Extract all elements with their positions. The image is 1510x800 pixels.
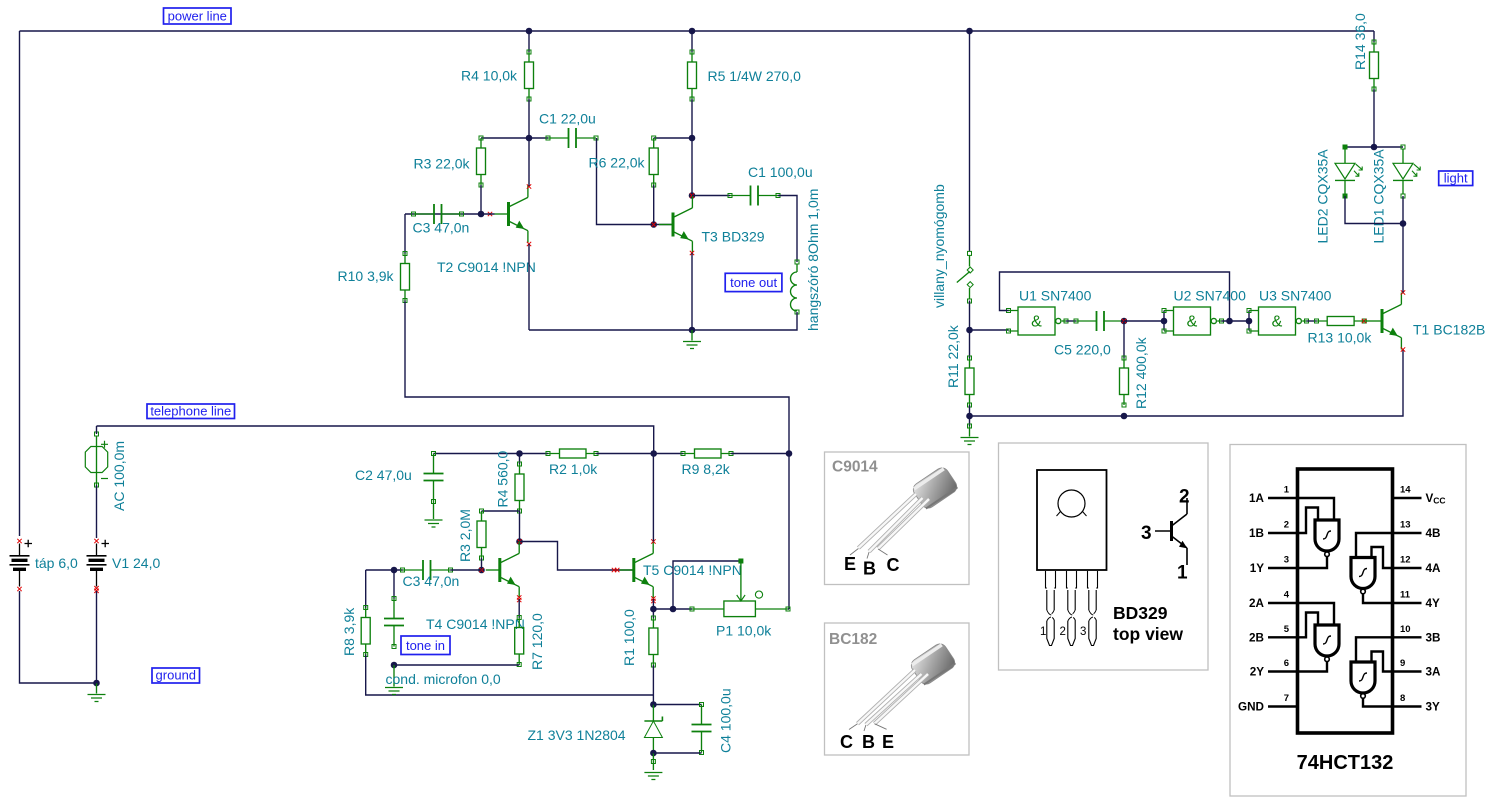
svg-text:telephone line: telephone line <box>150 404 231 419</box>
wire LED1 cathode <box>1402 196 1404 224</box>
wire telephone line <box>97 426 654 454</box>
wire <box>519 454 521 465</box>
svg-text:BD329: BD329 <box>1113 603 1168 623</box>
transistor T5 C9014 <box>620 542 653 599</box>
wire battery to ground <box>20 591 97 683</box>
wire U3 input tie <box>1248 311 1250 331</box>
node mic/C3b <box>391 567 398 574</box>
capacitor C4 100,0u <box>692 703 712 755</box>
node R6/T3 base <box>650 221 657 228</box>
ground mic <box>385 665 403 695</box>
NAND gate 1 internals <box>1297 498 1334 533</box>
svg-text:74HCT132: 74HCT132 <box>1297 752 1394 774</box>
svg-text:R7 120,0: R7 120,0 <box>529 613 545 670</box>
svg-text:R13 10,0k: R13 10,0k <box>1308 329 1373 345</box>
wire <box>1123 321 1125 358</box>
transistor T1 BC182B <box>1368 293 1401 350</box>
ground main <box>88 683 106 702</box>
svg-text:R3 2,0M: R3 2,0M <box>457 509 473 562</box>
resistor R14 <box>1370 40 1379 91</box>
info box BC182 pinout <box>825 623 970 755</box>
svg-text:U3 SN7400: U3 SN7400 <box>1259 288 1332 304</box>
resistor R5 <box>688 50 697 101</box>
wire P1 wiper loop <box>673 561 741 609</box>
wire <box>528 31 530 52</box>
inductor speaker hangszoro <box>791 260 800 314</box>
resistor R6 <box>649 136 658 187</box>
wire C3 to T2 base <box>405 213 495 215</box>
NAND gate U2 <box>1162 307 1224 335</box>
wire <box>1222 320 1250 322</box>
node switch/U1 <box>966 327 973 334</box>
label power line <box>164 8 232 24</box>
info box BD329 top view <box>999 443 1209 670</box>
svg-text:C1 22,0u: C1 22,0u <box>539 111 596 127</box>
wire emitter to P1 <box>653 608 692 610</box>
wire <box>1124 320 1164 322</box>
svg-text:8: 8 <box>1400 693 1405 704</box>
wire <box>654 137 692 139</box>
node R4b top <box>516 450 523 457</box>
wire <box>653 185 655 225</box>
svg-text:R6 22,0k: R6 22,0k <box>589 155 646 171</box>
svg-text:B: B <box>863 559 876 579</box>
wire C1 to T3 base <box>597 138 654 225</box>
wire mic rail <box>394 664 519 666</box>
svg-text:R3 22,0k: R3 22,0k <box>414 156 471 172</box>
svg-text:táp 6,0: táp 6,0 <box>35 555 78 571</box>
node R4/C1/R3 <box>526 135 533 142</box>
wire switch drop <box>969 31 971 251</box>
svg-text:4B: 4B <box>1426 527 1441 540</box>
wire LED2 cathode <box>1345 196 1403 224</box>
info box C9014 pinout <box>825 452 970 585</box>
svg-text:C4 100,0u: C4 100,0u <box>718 688 734 753</box>
svg-text:LED1 CQX35A: LED1 CQX35A <box>1371 149 1387 244</box>
svg-text:4Y: 4Y <box>1426 597 1441 610</box>
ground osc <box>961 426 979 445</box>
resistor R3 2,0M <box>477 509 486 560</box>
svg-text:3: 3 <box>1284 555 1289 566</box>
svg-text:1: 1 <box>1284 485 1290 496</box>
wire R3b top <box>482 510 520 512</box>
wire U2 input tie <box>1163 311 1165 331</box>
svg-text:2A: 2A <box>1249 597 1265 610</box>
svg-text:top view: top view <box>1113 624 1183 644</box>
potentiometer P1 <box>690 559 790 617</box>
pin marker T4 collector <box>517 539 521 543</box>
svg-text:2: 2 <box>1284 520 1289 531</box>
switch villany_nyomogomb <box>957 251 973 303</box>
svg-text:&: & <box>1272 314 1283 331</box>
wire <box>481 137 548 139</box>
svg-text:hangszóró 8Ohm 1,0m: hangszóró 8Ohm 1,0m <box>805 189 821 331</box>
svg-text:T2 C9014 !NPN: T2 C9014 !NPN <box>437 259 536 275</box>
node U3 inputs <box>1246 318 1253 325</box>
wire <box>691 138 693 196</box>
wire <box>692 195 730 197</box>
svg-text:R4 560,0: R4 560,0 <box>495 450 511 507</box>
svg-text:villany_nyomógomb: villany_nyomógomb <box>931 184 947 308</box>
svg-text:Z1 3V3 1N2804: Z1 3V3 1N2804 <box>528 727 626 743</box>
wire <box>365 570 367 608</box>
pin marker T3 emitter <box>690 251 694 255</box>
wire <box>691 99 693 138</box>
LED LED2 <box>1335 145 1362 198</box>
svg-text:R10 3,9k: R10 3,9k <box>338 268 395 284</box>
node R9/coupling <box>786 450 793 457</box>
wire <box>691 31 693 52</box>
pin markers V1 bottom <box>94 586 98 590</box>
svg-text:10: 10 <box>1400 624 1411 635</box>
node R5/R6 <box>689 135 696 142</box>
svg-text:13: 13 <box>1400 520 1411 531</box>
wire <box>652 665 654 705</box>
AC source <box>85 426 108 487</box>
svg-text:R4 10,0k: R4 10,0k <box>461 68 518 84</box>
node P1 wiper tie <box>670 606 677 613</box>
pin markers T2 <box>488 212 492 216</box>
wire <box>393 570 395 599</box>
wire R6 node to T3 base <box>654 224 672 226</box>
svg-text:4A: 4A <box>1426 562 1442 575</box>
svg-text:9: 9 <box>1400 658 1405 669</box>
svg-text:3: 3 <box>1141 523 1152 544</box>
svg-text:AC 100,0m: AC 100,0m <box>111 441 127 511</box>
svg-text:C: C <box>840 732 853 752</box>
node U2 out/feedback <box>1226 318 1233 325</box>
svg-text:11: 11 <box>1400 590 1411 601</box>
node T4 base <box>478 567 485 574</box>
label telephone line <box>147 404 235 419</box>
pin markers T4 emitter <box>517 595 521 599</box>
wire U3 out to R13 <box>1307 320 1317 322</box>
transistor T4 C9014 <box>486 542 519 599</box>
svg-text:T1 BC182B: T1 BC182B <box>1413 322 1485 338</box>
svg-text:4: 4 <box>1284 590 1290 601</box>
wire T5 emitter <box>652 599 654 609</box>
svg-text:1A: 1A <box>1249 492 1265 505</box>
pin marker T3 base <box>652 222 656 226</box>
wire rail C2-R2 <box>434 453 549 455</box>
wire R13 to T1 base <box>1364 320 1368 322</box>
svg-text:power line: power line <box>168 9 227 24</box>
wire T4 collector to T5 base <box>520 542 634 571</box>
svg-text:6: 6 <box>1284 658 1289 669</box>
node power/R5 <box>689 28 696 35</box>
NAND gate 4 internals <box>1356 637 1393 671</box>
svg-text:R12 400,0k: R12 400,0k <box>1133 336 1149 409</box>
svg-text:light: light <box>1444 171 1468 186</box>
svg-text:R8 3,9k: R8 3,9k <box>341 607 357 656</box>
node C5/R12 <box>1121 318 1128 325</box>
node LED cathode <box>1400 220 1407 227</box>
wire T1 collector up <box>1402 224 1404 293</box>
wire R8 to C3b <box>366 569 403 571</box>
svg-text:R1 100,0: R1 100,0 <box>621 609 637 666</box>
wire <box>652 609 654 618</box>
svg-text:3B: 3B <box>1426 631 1441 644</box>
wire to R10 <box>404 214 406 254</box>
wire <box>480 185 482 214</box>
svg-text:LED2 CQX35A: LED2 CQX35A <box>1315 149 1331 244</box>
svg-text:1: 1 <box>1177 563 1188 584</box>
svg-text:R14 36,0: R14 36,0 <box>1352 13 1368 70</box>
wire <box>653 704 701 706</box>
wire LED anode rail <box>1345 146 1403 148</box>
resistor R2 <box>546 449 598 458</box>
resistor R10 <box>401 252 410 303</box>
wire <box>788 608 789 610</box>
NAND gate 3 internals <box>1297 603 1334 637</box>
svg-text:B: B <box>862 732 875 752</box>
svg-text:ground: ground <box>156 668 196 683</box>
wire <box>528 99 530 138</box>
capacitor C3 47,0n b <box>401 560 453 580</box>
svg-text:C5 220,0: C5 220,0 <box>1054 342 1111 358</box>
resistor R13 <box>1315 317 1367 326</box>
wire power rail <box>20 30 1375 32</box>
svg-text:GND: GND <box>1238 701 1264 714</box>
resistor R8 <box>361 606 370 657</box>
wire C4 bottom <box>653 752 701 754</box>
node power/R4 <box>526 28 533 35</box>
node T2 base <box>478 211 485 218</box>
svg-text:U1 SN7400: U1 SN7400 <box>1019 288 1092 304</box>
LED LED1 <box>1393 145 1420 198</box>
wire left power drop <box>19 31 21 536</box>
wire R8 bottom rail <box>366 655 654 696</box>
wire T5 collector up <box>652 454 654 542</box>
capacitor microphone (cond. microfon) <box>384 597 404 649</box>
svg-text:1: 1 <box>1040 626 1046 638</box>
node T5 emitter <box>650 606 657 613</box>
wire T3 emitter down <box>691 253 693 330</box>
battery V1 <box>87 539 110 587</box>
resistor R4 560 <box>515 462 524 513</box>
node tone ground <box>689 327 696 334</box>
svg-text:C1 100,0u: C1 100,0u <box>748 164 813 180</box>
capacitor C3 47,0n <box>412 204 464 224</box>
wire <box>1066 320 1076 322</box>
wire U1 feedback <box>1000 272 1230 321</box>
svg-text:T5 C9014 !NPN: T5 C9014 !NPN <box>643 562 742 578</box>
info box 74HCT132 <box>1230 445 1466 797</box>
svg-text:R9 8,2k: R9 8,2k <box>682 461 731 477</box>
svg-text:C3 47,0n: C3 47,0n <box>403 573 460 589</box>
wire rail R9 right <box>731 453 789 455</box>
svg-text:3A: 3A <box>1426 666 1442 679</box>
pin marker R13 right <box>1362 319 1366 323</box>
wire <box>969 301 971 359</box>
resistor R1 <box>649 616 658 667</box>
svg-text:3Y: 3Y <box>1426 701 1441 714</box>
pin marker T3 collector <box>690 193 694 197</box>
zener diode Z1 <box>644 705 662 754</box>
node ground <box>93 680 100 687</box>
resistor R11 <box>965 356 974 407</box>
wire to U1 input2 <box>970 329 1009 331</box>
svg-text:1B: 1B <box>1249 527 1264 540</box>
svg-text:E: E <box>844 554 856 574</box>
battery tap <box>10 539 33 587</box>
node T4 collector <box>516 538 523 545</box>
wire T4 emitter to R7 <box>518 599 520 618</box>
NAND gate U3 <box>1247 307 1309 335</box>
label light <box>1439 171 1473 186</box>
capacitor C1 100,0u <box>728 186 780 206</box>
resistor R4 <box>525 50 534 101</box>
node Z1/C4 bottom <box>650 750 657 757</box>
resistor R3 <box>477 136 486 187</box>
resistor R9 <box>681 449 733 458</box>
transistor T3 BD329 <box>659 196 692 253</box>
svg-text:14: 14 <box>1400 485 1411 496</box>
pin marker C5 right <box>1122 319 1126 323</box>
wire <box>518 664 520 667</box>
node R12/ground rail <box>1121 413 1128 420</box>
svg-text:T4 C9014 !NPN: T4 C9014 !NPN <box>426 616 525 632</box>
svg-text:3: 3 <box>1080 626 1086 638</box>
label tone in <box>401 636 450 655</box>
node U2 inputs <box>1161 318 1168 325</box>
svg-text:U2 SN7400: U2 SN7400 <box>1174 288 1247 304</box>
pin marker tap bottom <box>17 587 21 591</box>
ground C2 <box>425 502 443 528</box>
wire <box>1373 89 1375 147</box>
svg-text:cond. microfon 0,0: cond. microfon 0,0 <box>386 671 501 687</box>
svg-text:C2 47,0u: C2 47,0u <box>355 467 412 483</box>
svg-text:2: 2 <box>1060 626 1066 638</box>
node R11/ground rail <box>966 413 973 420</box>
wire tone ground rail <box>529 312 797 330</box>
wire osc ground rail to T1 emitter <box>970 350 1404 417</box>
node LED anode rail <box>1371 144 1378 151</box>
svg-text:12: 12 <box>1400 555 1411 566</box>
pin marker T4 base <box>479 568 483 572</box>
pin markers T5 <box>651 539 655 543</box>
NAND gate U1 <box>1007 307 1069 335</box>
node tel/R2/R9/T5 <box>650 450 657 457</box>
svg-text:P1 10,0k: P1 10,0k <box>716 623 772 639</box>
capacitor C1 22,0u <box>546 128 598 148</box>
pin markers T5 base <box>612 568 616 572</box>
svg-text:5: 5 <box>1284 624 1290 635</box>
svg-text:BC182: BC182 <box>829 631 877 648</box>
svg-text:tone out: tone out <box>730 275 777 290</box>
transistor T2 C9014 <box>495 186 528 243</box>
svg-text:2B: 2B <box>1249 631 1264 644</box>
capacitor C5 220,0 <box>1074 311 1126 331</box>
wire <box>96 591 98 683</box>
svg-text:1Y: 1Y <box>1250 562 1265 575</box>
svg-text:&: & <box>1187 314 1198 331</box>
ground tone <box>683 330 701 349</box>
node power/switch <box>966 28 973 35</box>
svg-text:C3 47,0n: C3 47,0n <box>413 220 470 236</box>
pin markers T1 <box>1401 290 1405 294</box>
wire <box>969 405 971 426</box>
svg-text:T3 BD329: T3 BD329 <box>702 228 765 244</box>
capacitor C2 47,0u <box>424 452 444 504</box>
svg-text:C: C <box>887 555 900 575</box>
wire <box>96 485 98 538</box>
node T3 collector <box>689 192 696 199</box>
wire <box>1373 31 1375 42</box>
svg-text:2Y: 2Y <box>1250 666 1265 679</box>
wire T2 collector up <box>528 138 530 186</box>
wire T2 emitter down <box>528 244 530 330</box>
label ground <box>152 668 200 684</box>
resistor R12 <box>1120 356 1129 407</box>
wire to speaker <box>778 196 797 263</box>
label tone out <box>725 273 782 291</box>
svg-text:&: & <box>1031 314 1042 331</box>
svg-text:R2 1,0k: R2 1,0k <box>549 461 598 477</box>
svg-text:R11 22,0k: R11 22,0k <box>945 324 961 388</box>
wire tone coupling <box>405 301 789 610</box>
svg-text:tone in: tone in <box>406 638 445 653</box>
resistor R7 <box>515 616 524 667</box>
wire rail R2-R9 <box>596 453 683 455</box>
svg-text:V1 24,0: V1 24,0 <box>112 555 160 571</box>
svg-text:2: 2 <box>1179 487 1190 508</box>
wire <box>481 558 483 570</box>
NAND gate 2 internals <box>1356 533 1393 568</box>
svg-text:E: E <box>882 732 894 752</box>
node mic bottom <box>391 662 398 669</box>
wire <box>519 511 521 542</box>
svg-text:7: 7 <box>1284 693 1289 704</box>
node Z1/C4 top <box>650 701 657 708</box>
svg-text:C9014: C9014 <box>832 459 878 476</box>
wire Z1 to ground <box>652 753 654 770</box>
wire C3b to T4 base <box>451 569 482 571</box>
svg-text:R5 1/4W 270,0: R5 1/4W 270,0 <box>708 68 802 84</box>
